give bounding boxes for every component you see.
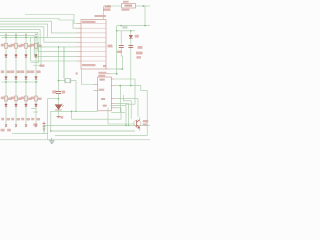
pin JP1 bbox=[43, 122, 46, 132]
label MEGA8 bbox=[99, 89, 105, 91]
wire pin98 to T1 bbox=[115, 99, 138, 117]
junction D9 branch bbox=[58, 98, 60, 100]
value R3 bbox=[28, 45, 32, 48]
connector row 6 bbox=[81, 46, 106, 48]
wire stub b bbox=[33, 111, 38, 113]
resistor R6 bbox=[15, 96, 18, 101]
value T3 bbox=[27, 118, 30, 120]
wire top rail bbox=[2, 36, 48, 38]
LED D4a bbox=[35, 55, 38, 58]
pin stub 7 bbox=[77, 51, 82, 53]
label C3 bbox=[108, 45, 113, 48]
wire reg in drop bbox=[103, 6, 105, 20]
wire T1 collector stub bbox=[139, 117, 141, 120]
value R8 bbox=[38, 98, 42, 101]
junction c bbox=[128, 125, 130, 127]
label bottom-left a bbox=[1, 129, 5, 132]
label D1 bbox=[1, 70, 4, 73]
pin stub 6 bbox=[77, 46, 82, 48]
label R1 bbox=[1, 44, 4, 47]
label T2 bbox=[11, 118, 14, 121]
label net right of block bbox=[40, 65, 45, 67]
wire 5V horizontal bbox=[117, 25, 150, 27]
resistor R8 bbox=[35, 96, 38, 101]
wire column 2 bbox=[15, 34, 17, 127]
ground GND1 bbox=[49, 138, 54, 143]
wire pin103 bbox=[115, 104, 129, 126]
resistor R7 bbox=[25, 96, 28, 101]
label C2 bbox=[52, 90, 56, 93]
label D4 bbox=[31, 70, 34, 73]
pin stub 4 bbox=[77, 37, 82, 39]
value T4 bbox=[37, 118, 40, 120]
pin stub 3 bbox=[77, 32, 82, 34]
IC2 pin right 5 bbox=[111, 107, 115, 109]
frame bottom line bbox=[0, 139, 150, 141]
wire fan net 7 bbox=[0, 32, 77, 51]
resistor R4 bbox=[35, 43, 38, 48]
pin tip col4 bbox=[35, 34, 36, 35]
label GND2 bbox=[60, 116, 63, 119]
junction col3 top rail bbox=[25, 36, 27, 38]
value T2 bbox=[17, 118, 20, 120]
junction col3 mid rail bbox=[25, 81, 27, 83]
junction crystal left bbox=[58, 80, 60, 82]
junction reset pin run bbox=[58, 46, 60, 48]
wire fan net 2 bbox=[0, 19, 77, 29]
junction b bbox=[125, 125, 127, 127]
LED D1a bbox=[5, 55, 8, 58]
wire reset run bbox=[58, 47, 60, 91]
label 1-640455-5 bottom bbox=[82, 64, 96, 66]
transistor T4 mark bbox=[35, 125, 37, 127]
value R2 bbox=[18, 45, 22, 48]
IC2 pin right 2 bbox=[111, 85, 115, 87]
wire crystal right down bbox=[71, 81, 76, 112]
connector row 1 bbox=[81, 23, 106, 25]
wire fan net 8 bbox=[0, 35, 77, 56]
wire column 4 bbox=[35, 34, 37, 127]
wire 5V down bbox=[116, 26, 118, 74]
wire v122 bbox=[121, 56, 123, 69]
label C4 bbox=[138, 46, 143, 49]
label T1 bbox=[1, 118, 4, 121]
value D2 bbox=[17, 71, 21, 74]
wire fan net 3 bbox=[0, 21, 77, 33]
transistor T2 mark bbox=[15, 125, 17, 127]
junction col2 mid rail bbox=[15, 81, 17, 83]
resistor R5 bbox=[5, 96, 8, 101]
regulator IC3 7805 bbox=[122, 4, 136, 8]
label D10 bbox=[135, 35, 139, 38]
junction col2 top rail bbox=[15, 36, 17, 38]
junction v130 bbox=[130, 30, 132, 32]
IC2 pin right 1 bbox=[111, 78, 115, 80]
wire jumper to rail B bbox=[43, 125, 45, 131]
wire pin85 loop bbox=[115, 86, 147, 136]
junction v130 bottom bbox=[130, 85, 132, 87]
wire D9 cathode down bbox=[58, 110, 60, 116]
wire corner a bbox=[124, 95, 132, 119]
label pin1 marker bbox=[76, 72, 78, 74]
value D3 bbox=[27, 71, 31, 74]
value D4 bbox=[37, 71, 41, 74]
wire cap drop bbox=[120, 31, 122, 45]
junction col1 top rail bbox=[5, 36, 7, 38]
pin tip col3 bbox=[25, 34, 26, 35]
junction loop railC bbox=[50, 130, 52, 132]
value R1 bbox=[8, 45, 12, 48]
IC2 pin right 3 bbox=[111, 98, 115, 100]
LED D5 bbox=[5, 104, 8, 107]
LED D4b bbox=[35, 77, 38, 80]
capacitor C3 bbox=[119, 45, 124, 47]
LED D8 bbox=[35, 104, 38, 107]
wire rail A bbox=[72, 118, 121, 120]
LED D3a bbox=[25, 55, 28, 58]
connector SV1 box bbox=[81, 20, 106, 70]
IC IC2 box bbox=[98, 77, 112, 111]
LED D6 bbox=[15, 104, 18, 107]
label R3 bbox=[21, 44, 24, 47]
wire drop 71 bbox=[71, 111, 73, 119]
pin stub right a bbox=[106, 68, 110, 70]
wire gnd run left bbox=[51, 111, 98, 131]
label R6 bbox=[11, 97, 14, 100]
connector row 7 bbox=[81, 51, 106, 53]
LED D2a bbox=[15, 55, 18, 58]
wire rail D bbox=[55, 135, 147, 137]
label C6 bbox=[101, 98, 105, 100]
IC2 pin left 1 bbox=[93, 84, 97, 86]
wire bottom-left bus bbox=[12, 133, 48, 135]
wire h69b bbox=[110, 68, 122, 70]
resistor R2 bbox=[15, 43, 18, 48]
junction crystal gnd bbox=[75, 111, 77, 113]
label C5 text bbox=[136, 52, 143, 55]
wire fan net 5 bbox=[0, 27, 77, 42]
wire v120 bbox=[119, 86, 121, 113]
label 7805 inside bbox=[125, 5, 133, 7]
crystal Q1 bbox=[65, 78, 71, 83]
label D3 bbox=[21, 70, 24, 73]
wire top-right rail bbox=[117, 30, 135, 32]
IC2 pin right 4 bbox=[111, 103, 115, 105]
junction col4 top rail bbox=[35, 36, 37, 38]
junction 5V a bbox=[120, 25, 122, 27]
pin stub 8 bbox=[77, 55, 82, 57]
wire feeder a bbox=[31, 42, 39, 63]
LED D9 bbox=[55, 104, 64, 110]
junction reg out bbox=[143, 5, 145, 7]
resistor R3 bbox=[25, 43, 28, 48]
wire T1 base bbox=[108, 123, 135, 125]
label extra bbox=[136, 56, 141, 58]
wire column 3 bbox=[25, 34, 27, 127]
label R5 bbox=[1, 97, 4, 100]
junction 5V rail bbox=[116, 30, 118, 32]
connector row 9 bbox=[81, 60, 106, 62]
label pin10 bbox=[103, 65, 106, 67]
wire rail B bbox=[44, 124, 150, 126]
wire pin79 corner bbox=[115, 79, 135, 104]
diode D10 bbox=[129, 35, 133, 38]
label T1 bbox=[143, 120, 148, 122]
junction h73 bbox=[116, 73, 118, 75]
LED D7 bbox=[25, 104, 28, 107]
wire link56 bbox=[121, 55, 122, 57]
pin stub 9 bbox=[77, 60, 82, 62]
connector row 3 bbox=[81, 32, 106, 34]
pin stub right b bbox=[106, 73, 110, 75]
wire rail C bbox=[51, 130, 135, 132]
wire fan net 4 bbox=[0, 24, 77, 37]
value R4 bbox=[38, 45, 42, 48]
pin tip col1 bbox=[5, 34, 6, 35]
wire h73 bbox=[110, 73, 116, 75]
value R5 bbox=[8, 98, 12, 101]
wire h112 bbox=[111, 111, 125, 113]
ground GND2 bbox=[57, 116, 61, 117]
label JP2 bbox=[105, 5, 112, 7]
wire big left loop bbox=[48, 99, 59, 140]
IC2 pin left 2 bbox=[93, 90, 97, 92]
junction 71 top bbox=[71, 111, 73, 113]
wire pin107 bbox=[115, 108, 121, 119]
label IC1 value bbox=[98, 75, 105, 77]
transistor T3 mark bbox=[25, 125, 27, 127]
connector row 4 bbox=[81, 37, 106, 39]
capacitor C4 bbox=[128, 45, 133, 47]
wire reg out bbox=[136, 5, 151, 7]
label T3 bbox=[21, 118, 24, 121]
wire mid rail bbox=[2, 81, 39, 83]
label T4 bbox=[31, 118, 34, 121]
wire stub a bbox=[31, 108, 36, 110]
LED D2b bbox=[15, 77, 18, 80]
wire fan net 9 bbox=[31, 37, 77, 61]
value T1 bbox=[7, 118, 10, 120]
wire T1 emitter bbox=[139, 128, 141, 131]
label IC1 name bbox=[98, 72, 106, 74]
label +5V net bbox=[122, 26, 127, 28]
connector row 8 bbox=[81, 55, 106, 57]
label R2 bbox=[11, 44, 14, 47]
value R7 bbox=[28, 98, 32, 101]
junction 5V b bbox=[144, 25, 146, 27]
wire crystal left bbox=[59, 80, 65, 82]
label D2 bbox=[11, 70, 14, 73]
wire fan net 6 bbox=[0, 30, 77, 47]
transistor T1 circle bbox=[134, 120, 141, 127]
LED D3b bbox=[25, 77, 28, 80]
wire reg in bbox=[104, 5, 122, 7]
label GND pin bbox=[103, 105, 107, 107]
label R4 bbox=[31, 44, 34, 47]
pin stub 2 bbox=[77, 27, 82, 29]
junction col4 mid rail bbox=[35, 81, 37, 83]
pin stub 1 bbox=[77, 23, 82, 25]
wire h69 bbox=[117, 68, 123, 70]
LED D1b bbox=[5, 77, 8, 80]
label R8 bbox=[31, 97, 34, 100]
transistor T1 mark bbox=[5, 125, 7, 127]
label SV1 bbox=[95, 15, 107, 17]
wire under C3 bbox=[120, 48, 122, 56]
wire base riser bbox=[107, 108, 109, 124]
wire cap to led bbox=[58, 94, 60, 105]
label JP1 bbox=[33, 123, 37, 126]
value C2 bbox=[62, 91, 65, 94]
pin stub 5 bbox=[77, 41, 82, 43]
label 1-640455-5 top bbox=[82, 21, 96, 23]
wire column 1 bbox=[5, 34, 7, 127]
value T1 bbox=[143, 123, 148, 125]
label R7 bbox=[21, 97, 24, 100]
wire SV1 to IC2 bbox=[82, 69, 94, 85]
wire reg out drop bbox=[144, 6, 146, 26]
junction a bbox=[119, 85, 121, 87]
junction col1 mid rail bbox=[5, 81, 7, 83]
wire jumper down bbox=[43, 132, 45, 134]
value R6 bbox=[18, 98, 22, 101]
label bottom-left b bbox=[7, 129, 11, 132]
connector row 5 bbox=[81, 41, 106, 43]
wire gnd pin right bbox=[110, 106, 126, 126]
capacitor C2 bbox=[56, 91, 61, 93]
junction h69 bbox=[122, 68, 124, 70]
value D1 bbox=[7, 71, 11, 74]
pin tip col2 bbox=[15, 34, 16, 35]
label IC2 bbox=[99, 79, 104, 81]
junction reg in bbox=[108, 5, 110, 7]
wire feeder b bbox=[33, 45, 41, 66]
value 7805 bbox=[121, 9, 129, 11]
connector row 2 bbox=[81, 27, 106, 29]
value C3 bbox=[117, 51, 122, 53]
resistor R1 bbox=[5, 43, 8, 48]
wire drop to crystal bbox=[63, 47, 65, 79]
label IN bbox=[103, 8, 111, 10]
transistor T1 bbox=[136, 120, 139, 129]
wire v130 bbox=[130, 31, 132, 86]
label IC3 bbox=[123, 1, 129, 3]
wire fan net 1 bbox=[25, 15, 77, 24]
